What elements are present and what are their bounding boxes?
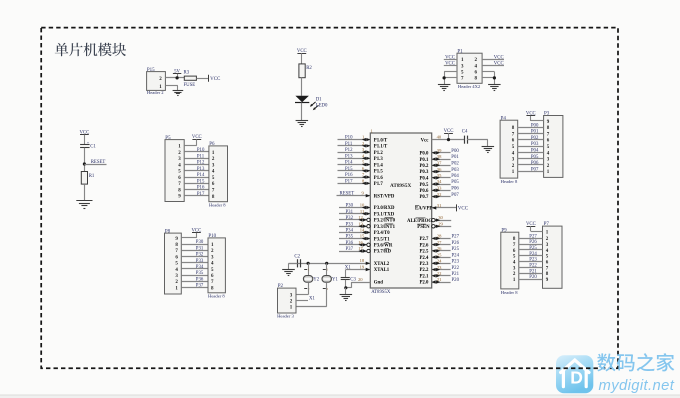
wire net P11	[184, 158, 209, 160]
svg-text:AT89S5X: AT89S5X	[371, 290, 391, 295]
svg-text:P0.0: P0.0	[419, 152, 429, 157]
wire P1 pin5	[444, 71, 457, 73]
wire net P03	[432, 171, 451, 173]
svg-text:30: 30	[438, 215, 443, 220]
wire net P21	[432, 275, 451, 277]
svg-text:P17: P17	[197, 192, 205, 197]
svg-text:RESET: RESET	[340, 192, 355, 197]
wire net P00	[432, 152, 451, 154]
wire net P05	[432, 184, 451, 186]
wire net P33	[181, 262, 208, 264]
svg-text:Header 3: Header 3	[277, 313, 294, 318]
wire net P16	[338, 177, 371, 179]
svg-text:P2.4: P2.4	[419, 256, 429, 261]
wire net P26	[432, 244, 451, 246]
svg-text:P0.6: P0.6	[419, 189, 429, 194]
svg-text:P31: P31	[196, 246, 204, 251]
svg-text:P15: P15	[147, 68, 155, 73]
svg-text:P24: P24	[529, 252, 537, 257]
svg-text:Header 8: Header 8	[209, 203, 226, 208]
junction 5V node	[176, 76, 179, 79]
wire C1 to R1	[84, 148, 86, 172]
wire net P27	[432, 238, 451, 240]
svg-text:P30: P30	[196, 240, 204, 245]
svg-text:P3.0/RXD: P3.0/RXD	[374, 206, 395, 211]
wire P2 pin3	[296, 294, 308, 296]
power VCC (P15)	[209, 75, 222, 82]
svg-text:20: 20	[358, 277, 363, 282]
LED D1 LED0	[295, 96, 328, 110]
svg-text:P0.7: P0.7	[419, 195, 429, 200]
wire net P25	[519, 249, 543, 251]
svg-text:P3.4/T0: P3.4/T0	[374, 231, 390, 236]
wire net P32	[181, 256, 208, 258]
svg-text:P02: P02	[451, 162, 459, 167]
wire R3 to VCC	[196, 78, 208, 80]
wire P8 pin9 to VCC	[181, 237, 196, 239]
wire net P16	[184, 189, 209, 191]
header P4 (Header 8)	[500, 116, 518, 184]
svg-text:P17: P17	[345, 179, 353, 184]
capacitor C3	[341, 277, 357, 282]
svg-text:P0.4: P0.4	[419, 177, 429, 182]
junction Y1 top	[325, 262, 328, 265]
svg-text:P3.3/INT1: P3.3/INT1	[374, 225, 396, 230]
svg-text:Header 8: Header 8	[501, 179, 518, 184]
svg-text:P2: P2	[278, 284, 284, 289]
svg-text:D1: D1	[316, 97, 322, 102]
svg-text:P3.1/TXD: P3.1/TXD	[374, 212, 395, 217]
svg-text:15: 15	[360, 234, 365, 239]
svg-text:P24: P24	[452, 253, 460, 258]
svg-text:P00: P00	[451, 149, 459, 154]
svg-text:P06: P06	[451, 187, 459, 192]
header P2 (Header 3)	[277, 284, 296, 318]
svg-text:P0.1: P0.1	[419, 158, 429, 163]
svg-text:P01: P01	[531, 130, 539, 135]
wire net P14	[184, 177, 209, 179]
wire net P01	[518, 133, 544, 135]
svg-text:P15: P15	[345, 167, 353, 172]
svg-text:P25: P25	[529, 246, 537, 251]
watermark text 数码之家	[597, 353, 674, 371]
svg-text:R1: R1	[89, 174, 95, 179]
wire net P35	[181, 275, 208, 277]
wire Y1 down	[326, 282, 328, 306]
svg-text:P10: P10	[197, 148, 205, 153]
svg-text:P14: P14	[197, 173, 205, 178]
svg-text:P7: P7	[544, 222, 550, 227]
svg-text:P04: P04	[451, 174, 459, 179]
svg-text:19: 19	[360, 264, 365, 269]
wire P7 pin1 VCC	[531, 231, 543, 233]
svg-text:RST/VPD: RST/VPD	[374, 194, 395, 199]
svg-text:P16: P16	[197, 186, 205, 191]
svg-text:AT89S5X: AT89S5X	[390, 183, 411, 189]
wire P1 pin7	[444, 77, 457, 79]
wire net P24	[519, 255, 543, 257]
wire net P02	[518, 139, 544, 141]
svg-text:31: 31	[437, 203, 442, 208]
wire net P34	[181, 268, 208, 270]
svg-text:P34: P34	[346, 229, 354, 234]
svg-text:P30: P30	[346, 204, 354, 209]
wire P1 pin6	[482, 71, 494, 73]
svg-text:Gnd: Gnd	[374, 281, 383, 286]
wire P1 pin1 VCC	[444, 59, 457, 61]
svg-text:P37: P37	[196, 284, 204, 289]
svg-text:VCC: VCC	[445, 62, 455, 67]
svg-text:P0.5: P0.5	[419, 183, 429, 188]
svg-text:XTAL2: XTAL2	[374, 262, 390, 267]
svg-text:P13: P13	[345, 154, 353, 159]
svg-text:P02: P02	[531, 136, 539, 141]
wire pin31 to VCC	[432, 207, 457, 209]
svg-text:P35: P35	[196, 271, 204, 276]
svg-text:18: 18	[360, 258, 365, 263]
svg-text:P03: P03	[531, 142, 539, 147]
svg-text:P13: P13	[197, 167, 205, 172]
wire net P36 + pin 16	[339, 244, 367, 246]
svg-text:P3.5/T1: P3.5/T1	[374, 237, 390, 242]
junction P1 left gnd	[443, 76, 446, 79]
svg-text:Vcc: Vcc	[421, 138, 430, 143]
title 单片机模块	[55, 43, 126, 57]
svg-text:P3: P3	[544, 112, 550, 117]
wire XTAL2 net	[289, 263, 371, 265]
svg-text:13: 13	[358, 221, 363, 226]
wire C4 to ground	[467, 139, 488, 141]
svg-text:P1.0/T: P1.0/T	[374, 138, 388, 143]
wire net P33 + pin 13	[339, 226, 367, 228]
wire net P10	[184, 151, 209, 153]
svg-text:12: 12	[358, 215, 363, 220]
ground (C3)	[340, 295, 353, 301]
svg-text:P3.6/WR: P3.6/WR	[374, 244, 393, 249]
header P5	[165, 136, 184, 202]
svg-text:40: 40	[437, 135, 442, 140]
svg-text:P23: P23	[529, 258, 537, 263]
svg-text:Y1: Y1	[332, 278, 338, 283]
svg-text:P4: P4	[501, 116, 507, 121]
svg-text:EA/VPP: EA/VPP	[415, 207, 432, 212]
power VCC (pin40)	[444, 129, 454, 134]
svg-text:P21: P21	[529, 269, 537, 274]
svg-text:Header 2: Header 2	[147, 90, 164, 95]
wire P1 pin8	[482, 77, 494, 79]
wire net P12	[338, 152, 371, 154]
wire pin20 down	[351, 282, 353, 288]
wire Y2 to P2 pin3	[308, 282, 310, 294]
svg-text:P2.6: P2.6	[419, 243, 429, 248]
wire D1 to ground	[301, 103, 303, 121]
wire net P17	[338, 183, 371, 185]
svg-text:P32: P32	[346, 216, 354, 221]
wire R2 to D1	[301, 78, 303, 96]
svg-text:Header 4X2: Header 4X2	[458, 84, 481, 89]
wire net P12	[184, 164, 209, 166]
wire net P04	[518, 152, 544, 154]
wire net P04	[432, 177, 451, 179]
svg-text:R3: R3	[184, 70, 190, 75]
wire P1 pin4 VCC	[482, 65, 504, 67]
junction C3/gnd	[344, 286, 347, 289]
svg-text:P1.4: P1.4	[374, 163, 384, 168]
header P15 (Header 2)	[147, 68, 166, 95]
wire net P23	[519, 261, 543, 263]
svg-text:VCC: VCC	[445, 55, 455, 60]
svg-text:P36: P36	[346, 241, 354, 246]
svg-text:P0.3: P0.3	[419, 170, 429, 175]
svg-text:P04: P04	[531, 149, 539, 154]
svg-text:P12: P12	[345, 148, 353, 153]
svg-text:P11: P11	[345, 142, 353, 147]
svg-text:P32: P32	[196, 253, 204, 258]
resistor R2	[299, 64, 312, 78]
wire RESET stub	[84, 164, 106, 166]
wire net P11	[338, 145, 371, 147]
wire Gnd pin20	[352, 282, 371, 284]
wire net P22	[432, 269, 451, 271]
junction P1 right gnd	[493, 76, 496, 79]
resistor R1	[81, 172, 95, 185]
svg-text:Header 8: Header 8	[208, 294, 225, 299]
wire net RESET	[337, 195, 371, 197]
svg-text:VCC: VCC	[494, 62, 504, 67]
wire net P37 + pin 17	[339, 251, 367, 253]
wire net P20	[519, 279, 543, 281]
wire net P15	[338, 170, 371, 172]
wire net P13	[184, 170, 209, 172]
wire P15 pin1 to ground	[165, 85, 178, 87]
wire net P36	[181, 281, 208, 283]
svg-text:P33: P33	[196, 259, 204, 264]
header P8	[165, 229, 182, 294]
svg-text:VCC: VCC	[210, 77, 221, 82]
svg-text:P36: P36	[196, 277, 204, 282]
svg-text:P26: P26	[529, 240, 537, 245]
svg-text:Header 8: Header 8	[501, 290, 518, 295]
wire net P02	[432, 165, 451, 167]
header P3	[544, 112, 563, 178]
svg-text:P22: P22	[529, 264, 537, 269]
svg-text:P03: P03	[451, 168, 459, 173]
wire net P14	[338, 164, 371, 166]
wire net P06	[518, 164, 544, 166]
svg-text:PSEN: PSEN	[417, 225, 430, 230]
wire net P21	[519, 273, 543, 275]
svg-text:P31: P31	[346, 210, 354, 215]
svg-text:C3: C3	[350, 277, 356, 282]
chip right pin names	[407, 138, 432, 285]
svg-text:FUSE: FUSE	[184, 83, 196, 88]
svg-text:P37: P37	[346, 247, 354, 252]
ground (P1 left)	[438, 85, 451, 91]
power VCC (P8)	[191, 229, 201, 238]
svg-text:P0.2: P0.2	[419, 164, 429, 169]
svg-text:ALE/PROG: ALE/PROG	[407, 219, 432, 224]
wire net P24	[432, 257, 451, 259]
ground (R1)	[76, 201, 92, 209]
svg-text:P14: P14	[345, 161, 353, 166]
pin 30 stub	[435, 220, 451, 222]
chip left pin names	[374, 138, 396, 285]
capacitor C1 (polarized)	[80, 140, 96, 149]
bottom page strip	[0, 395, 680, 398]
svg-text:R2: R2	[306, 66, 312, 71]
svg-text:P1.5: P1.5	[374, 170, 384, 175]
wire net P34 + pin 14	[339, 232, 370, 234]
wire net P31	[181, 250, 208, 252]
ground (P1 right)	[488, 85, 501, 91]
svg-text:29: 29	[438, 221, 443, 226]
junction pin40 VCC	[447, 138, 450, 141]
svg-text:P2.7: P2.7	[419, 237, 429, 242]
svg-text:P20: P20	[529, 275, 537, 280]
power port 5V	[173, 70, 181, 78]
svg-text:P2.2: P2.2	[419, 268, 429, 273]
svg-text:P1.6: P1.6	[374, 176, 384, 181]
svg-text:P1.1/T: P1.1/T	[374, 145, 388, 150]
svg-text:1: 1	[326, 268, 328, 272]
wire P2 pin2 net X1	[296, 300, 308, 302]
svg-text:P16: P16	[345, 173, 353, 178]
svg-text:VCC: VCC	[494, 55, 504, 60]
svg-text:P33: P33	[346, 222, 354, 227]
junction Y2 top	[307, 262, 310, 265]
crystal Y1	[322, 263, 338, 291]
svg-text:P27: P27	[452, 235, 460, 240]
svg-text:D: D	[570, 367, 583, 387]
wire P2 pin1	[296, 306, 327, 308]
svg-text:P05: P05	[451, 180, 459, 185]
wire net P27	[519, 238, 543, 240]
svg-text:P2.5: P2.5	[419, 250, 429, 255]
wire net P37	[181, 287, 208, 289]
wire net P07	[432, 196, 451, 198]
header P9 (Header 8)	[501, 228, 519, 295]
svg-text:C4: C4	[462, 130, 468, 135]
power VCC (P7)	[526, 222, 536, 231]
wire net P35 + pin 15	[339, 238, 370, 240]
wire net P13	[338, 158, 371, 160]
wire net P31 + pin 11	[339, 213, 370, 215]
svg-text:P5: P5	[165, 136, 171, 141]
svg-text:mydigit.net: mydigit.net	[599, 378, 675, 394]
wire net P25	[432, 250, 451, 252]
ground (C4)	[482, 147, 495, 153]
svg-text:10: 10	[360, 203, 365, 208]
svg-text:P27: P27	[529, 234, 537, 239]
power VCC (P5)	[192, 135, 202, 145]
svg-text:P20: P20	[452, 278, 460, 283]
wire to C3 node	[346, 287, 352, 289]
svg-text:P2.1: P2.1	[419, 275, 429, 280]
wire P15 pin2 to R3	[165, 77, 184, 79]
svg-text:P01: P01	[451, 155, 459, 160]
wire net P15	[184, 183, 209, 185]
svg-text:P8: P8	[165, 229, 171, 234]
svg-text:X1: X1	[309, 296, 315, 301]
svg-text:P9: P9	[501, 228, 507, 233]
wire P5 pin1 to VCC	[184, 145, 197, 147]
svg-text:P06: P06	[531, 161, 539, 166]
svg-text:P1: P1	[457, 49, 463, 54]
svg-text:P00: P00	[531, 123, 539, 128]
wire net P30	[181, 244, 208, 246]
wire XTAL1 net X1	[346, 269, 371, 271]
svg-text:RESET: RESET	[91, 160, 106, 165]
svg-text:P6: P6	[209, 142, 215, 147]
svg-text:P11: P11	[197, 154, 205, 159]
wire pin40 to C4	[432, 139, 465, 141]
svg-text:P1.3: P1.3	[374, 157, 384, 162]
svg-text:P22: P22	[452, 266, 460, 271]
svg-text:Y2: Y2	[313, 278, 319, 283]
wire net P26	[519, 244, 543, 246]
wire net P10	[338, 139, 371, 141]
svg-text:P10: P10	[208, 234, 216, 239]
wire net P06	[432, 190, 451, 192]
resistor R3 (FUSE)	[184, 70, 197, 87]
svg-text:P10: P10	[345, 136, 353, 141]
watermark logo icon mydigit	[556, 355, 593, 393]
svg-text:1: 1	[308, 268, 310, 272]
wire net P20	[432, 282, 451, 284]
svg-text:P34: P34	[196, 265, 204, 270]
power VCC (R2)	[297, 49, 307, 64]
dashed schematic border frame	[41, 28, 618, 369]
wire C2 left	[289, 263, 298, 265]
crystal Y2	[303, 263, 319, 291]
capacitor C4	[462, 130, 468, 144]
svg-text:P21: P21	[452, 272, 460, 277]
wire net P22	[519, 267, 543, 269]
IC U1 AT89S5X	[370, 128, 431, 295]
svg-text:XTAL1: XTAL1	[374, 268, 390, 273]
power VCC (C1)	[79, 131, 89, 145]
wire net P17	[184, 195, 209, 197]
wire net P05	[518, 158, 544, 160]
svg-text:17: 17	[358, 246, 363, 251]
wire net P00	[518, 127, 544, 129]
svg-text:16: 16	[358, 240, 363, 245]
wire P1 pin3 VCC	[444, 65, 457, 67]
header P10 (Header 8)	[208, 234, 225, 299]
wire P1 pin2 VCC	[482, 59, 504, 61]
svg-text:VCC: VCC	[458, 207, 469, 212]
svg-text:P2.3: P2.3	[419, 262, 429, 267]
ground (D1)	[296, 121, 309, 127]
ground (P15)	[173, 91, 184, 96]
wire net P32 + pin 12	[339, 219, 367, 221]
svg-text:LED0: LED0	[316, 104, 328, 109]
wire net P01	[432, 159, 451, 161]
power VCC (P3)	[526, 112, 536, 121]
header P1 (Header 4X2)	[457, 49, 482, 89]
net X1 branch to C3	[345, 270, 347, 278]
power VCC (EA)	[457, 204, 469, 211]
svg-text:P1.7: P1.7	[374, 182, 384, 187]
wire net P07	[518, 171, 544, 173]
wire net P30 + pin 10	[339, 207, 370, 209]
svg-text:P07: P07	[451, 193, 459, 198]
junction RESET node	[83, 162, 86, 165]
svg-text:P23: P23	[452, 260, 460, 265]
header P7	[543, 222, 563, 288]
svg-text:P35: P35	[346, 235, 354, 240]
svg-text:P26: P26	[452, 241, 460, 246]
